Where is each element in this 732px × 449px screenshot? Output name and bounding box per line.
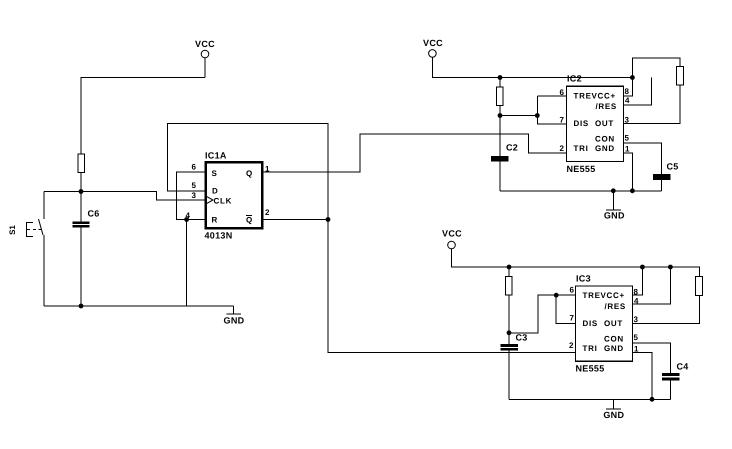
switch S1 <box>8 192 44 307</box>
svg-text:GND: GND <box>595 144 615 153</box>
capacitor C5 <box>653 162 679 191</box>
svg-text:8: 8 <box>625 87 630 96</box>
node rail pin4 drop <box>668 265 673 270</box>
svg-text:6: 6 <box>192 162 197 171</box>
pin name Q-bar <box>246 216 253 225</box>
wire node A horizontal to CLK <box>44 192 205 201</box>
wire Q-bar to node B <box>263 219 328 221</box>
node R4-C3 junction <box>507 330 512 335</box>
resistor R3 <box>677 67 684 85</box>
wire bottom rail left section <box>44 305 234 307</box>
svg-text:DIS: DIS <box>583 319 598 328</box>
svg-text:C3: C3 <box>516 333 528 343</box>
node A junction <box>79 189 84 194</box>
wire R4 bottom to node <box>508 295 510 333</box>
svg-text:1: 1 <box>634 344 639 353</box>
capacitor C4 <box>662 362 689 400</box>
svg-text:IC3: IC3 <box>576 274 591 284</box>
svg-text:TRE: TRE <box>574 91 592 100</box>
node pin1 drop IC3 <box>650 397 655 402</box>
capacitor C6 <box>73 192 100 307</box>
svg-text:C2: C2 <box>506 143 518 153</box>
resistor R2 <box>497 87 504 106</box>
svg-text:7: 7 <box>570 314 575 323</box>
node bottom junction <box>79 304 84 309</box>
node C2-rail-right <box>630 75 635 80</box>
svg-text:Q: Q <box>246 216 253 225</box>
svg-text:S1: S1 <box>8 225 17 235</box>
svg-text:TRI: TRI <box>583 344 598 353</box>
svg-text:C6: C6 <box>88 209 100 219</box>
svg-text:2: 2 <box>560 144 565 153</box>
wire Q-bar long drop to IC3 TRI <box>328 220 575 353</box>
svg-text:GND: GND <box>603 410 624 420</box>
power VCC2 <box>423 38 443 57</box>
node tie junction <box>535 113 540 118</box>
wire tie node to pins 6-7 IC2 <box>500 96 566 124</box>
node R2-C2 junction <box>498 113 503 118</box>
wire R5 bottom to OUT IC3 <box>633 296 699 324</box>
node pin1 drop IC2 <box>630 188 635 193</box>
svg-text:4013N: 4013N <box>205 231 233 241</box>
wire VCC1 stub <box>204 58 206 78</box>
wire pin 4 IC2 loop to rail <box>624 78 652 105</box>
power VCC1 <box>195 39 215 58</box>
svg-text:CLK: CLK <box>214 197 233 206</box>
svg-text:8: 8 <box>634 288 639 297</box>
wire pin 4 IC3 to rail <box>633 267 670 304</box>
wire R2 bottom to node <box>499 106 501 116</box>
svg-text:CON: CON <box>604 334 624 343</box>
flip-flop IC1A box <box>206 162 262 228</box>
svg-text:6: 6 <box>560 88 565 97</box>
svg-text:/RES: /RES <box>605 302 626 311</box>
capacitor C3 <box>501 333 528 400</box>
svg-text:OUT: OUT <box>604 319 623 328</box>
svg-text:1: 1 <box>265 165 270 174</box>
wire bottom rail IC3 section <box>509 398 671 400</box>
node tie junction IC3 <box>554 293 559 298</box>
resistor R4 <box>506 277 513 296</box>
svg-text:VCC+: VCC+ <box>592 91 616 100</box>
svg-text:3: 3 <box>192 191 197 200</box>
svg-text:NE555: NE555 <box>576 364 605 374</box>
svg-text:4: 4 <box>634 296 639 305</box>
timer IC3 box <box>576 286 633 361</box>
svg-text:/RES: /RES <box>596 102 617 111</box>
svg-text:GND: GND <box>604 211 625 221</box>
wire tie node to pins 6-7 IC3 <box>509 295 575 333</box>
svg-text:IC1A: IC1A <box>205 151 227 161</box>
svg-text:5: 5 <box>625 133 630 142</box>
svg-text:IC2: IC2 <box>567 74 582 84</box>
svg-text:3: 3 <box>625 116 630 125</box>
svg-text:VCC: VCC <box>423 38 443 48</box>
wire rail to R4 <box>508 267 510 277</box>
svg-text:Q: Q <box>246 169 253 178</box>
svg-text:R: R <box>212 216 218 225</box>
ground GND3 <box>603 399 624 420</box>
wire VCC1 rail to resistor branch <box>81 78 205 155</box>
svg-text:TRI: TRI <box>574 144 589 153</box>
wire pin 5 IC3 to C4 <box>633 343 671 373</box>
wire S-R tie <box>177 172 205 220</box>
wire pin 8 IC3 to rail <box>633 267 642 295</box>
wire R3 bottom to OUT IC2 <box>624 85 680 123</box>
wire pin 1 IC3 to rail <box>633 352 652 399</box>
svg-text:5: 5 <box>634 333 639 342</box>
svg-text:VCC: VCC <box>442 229 462 239</box>
svg-text:S: S <box>212 169 218 178</box>
svg-text:C4: C4 <box>677 362 689 372</box>
svg-text:C5: C5 <box>667 162 679 172</box>
svg-text:5: 5 <box>192 181 197 190</box>
wire VCC3 rail <box>452 249 700 277</box>
wire R node to bottom rail <box>186 220 188 307</box>
svg-text:D: D <box>212 187 218 196</box>
svg-text:GND: GND <box>604 344 624 353</box>
wire rail to R3 top <box>632 58 680 78</box>
svg-text:6: 6 <box>570 286 575 295</box>
node R junction <box>184 217 189 222</box>
node rail R4 top <box>507 265 512 270</box>
timer IC2 box <box>567 86 624 161</box>
svg-text:2: 2 <box>569 341 574 350</box>
wire pin 8 IC2 to rail <box>624 78 632 97</box>
node GND tap IC2 <box>611 188 616 193</box>
power VCC3 <box>442 229 462 249</box>
pin name CLK with clock triangle <box>207 197 232 206</box>
wire pin 5 IC2 to C5 <box>624 143 661 174</box>
node rail pin8 drop <box>640 265 645 270</box>
svg-text:CON: CON <box>595 135 615 144</box>
wire bottom rail IC2 section <box>500 190 661 192</box>
svg-text:TRE: TRE <box>583 291 601 300</box>
resistor R1 <box>78 154 85 173</box>
svg-text:2: 2 <box>265 208 270 217</box>
svg-text:DIS: DIS <box>574 119 589 128</box>
resistor R5 <box>696 276 703 295</box>
svg-text:4: 4 <box>186 211 191 220</box>
svg-text:NE555: NE555 <box>567 164 596 174</box>
svg-text:OUT: OUT <box>595 119 614 128</box>
svg-text:7: 7 <box>560 115 565 124</box>
svg-text:VCC+: VCC+ <box>601 291 625 300</box>
svg-text:GND: GND <box>224 316 245 326</box>
ground GND1 <box>224 306 245 326</box>
wire feedback Q-bar to D <box>167 123 328 219</box>
wire R1 bottom to node A <box>80 173 82 192</box>
capacitor C2 <box>491 116 518 191</box>
ground GND2 <box>604 191 625 221</box>
wire Q output to IC2 TRI <box>263 134 566 172</box>
wire VCC2 rail <box>432 57 632 77</box>
svg-text:3: 3 <box>634 315 639 324</box>
svg-text:VCC: VCC <box>195 39 215 49</box>
wire rail to R2 <box>499 78 501 88</box>
node C2-rail-left <box>498 75 503 80</box>
wire pin 1 IC2 to rail <box>624 153 632 191</box>
svg-text:1: 1 <box>625 145 630 154</box>
node B junction <box>326 217 331 222</box>
svg-text:4: 4 <box>625 96 630 105</box>
